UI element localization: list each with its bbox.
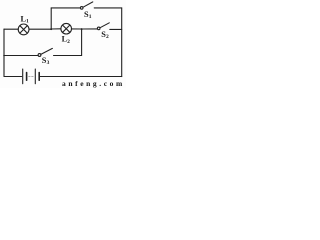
lamp L2 xyxy=(61,23,72,34)
svg-text:2: 2 xyxy=(67,39,70,45)
wire top row to S1 xyxy=(51,7,80,9)
battery cell 1 short plate xyxy=(26,73,28,81)
switch S1 xyxy=(80,2,92,9)
wire battery to right edge xyxy=(40,76,122,78)
svg-text:1: 1 xyxy=(89,14,92,20)
battery inter-cell dashes xyxy=(29,76,35,78)
lamp L1 xyxy=(18,24,29,35)
switch S2 xyxy=(97,23,109,30)
label L2 xyxy=(62,35,71,45)
wire S2 to right edge xyxy=(110,28,122,30)
wire lamp row left xyxy=(4,28,18,30)
wire node C to S2 xyxy=(82,28,98,30)
wire battery row left xyxy=(4,76,22,78)
battery cell 1 long plate xyxy=(22,69,24,84)
wire right edge vertical xyxy=(121,8,123,77)
wire L1 to node B xyxy=(29,28,51,30)
wire S3 to riser xyxy=(54,55,82,57)
label L1 xyxy=(21,14,30,24)
node C junction xyxy=(81,28,83,30)
label S1 xyxy=(84,10,92,20)
wire S3 row left xyxy=(4,55,38,57)
svg-text:3: 3 xyxy=(47,60,50,66)
svg-text:1: 1 xyxy=(26,19,29,25)
node B junction xyxy=(50,28,52,30)
wire top branch vertical xyxy=(50,8,52,29)
wire L2 to node C xyxy=(72,28,82,30)
wire left edge vertical xyxy=(3,29,5,76)
wire riser node C down xyxy=(81,29,83,55)
node left S3 junction xyxy=(3,55,5,57)
battery cell 2 long plate xyxy=(34,69,36,84)
svg-text:anfeng.com: anfeng.com xyxy=(62,79,125,88)
label S3 xyxy=(42,56,50,66)
battery cell 2 short plate xyxy=(38,73,40,81)
wire node B to L2 xyxy=(51,28,61,30)
svg-text:2: 2 xyxy=(106,34,109,40)
wire S1 to right edge xyxy=(94,7,122,9)
label S2 xyxy=(101,30,109,40)
switch S3 xyxy=(38,48,52,56)
